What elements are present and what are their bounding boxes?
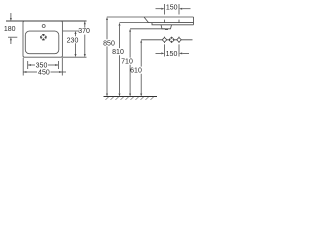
dimension 350 (below plan) bbox=[28, 61, 59, 69]
floor line bbox=[104, 96, 158, 98]
svg-text:370: 370 bbox=[78, 28, 90, 35]
svg-text:230: 230 bbox=[67, 37, 79, 44]
svg-text:610: 610 bbox=[130, 68, 142, 75]
svg-text:150: 150 bbox=[166, 4, 178, 11]
basin back edge (thick top line with side extensions) bbox=[6, 20, 87, 22]
floor hatching bbox=[106, 97, 154, 100]
supply/drain symbols row bbox=[141, 39, 192, 41]
dimension 150 (top, tap holes) bbox=[156, 4, 191, 15]
supply diamond left bbox=[162, 37, 167, 43]
svg-text:180: 180 bbox=[4, 26, 16, 33]
svg-text:710: 710 bbox=[121, 59, 133, 66]
dimension 150 (bottom, supplies) bbox=[156, 44, 190, 56]
trap bbox=[161, 25, 172, 29]
svg-text:810: 810 bbox=[112, 49, 124, 56]
height dimension 810 bbox=[119, 23, 149, 97]
tap hole tick right bbox=[178, 20, 180, 23]
bottom edge right extension bbox=[62, 56, 86, 58]
dimension 230 (right of plan) bbox=[63, 31, 79, 57]
wall-side edge bbox=[193, 17, 195, 25]
front chamfer bbox=[144, 17, 149, 23]
supply diamond right bbox=[177, 37, 182, 43]
rim bottom bbox=[149, 22, 194, 24]
svg-text:350: 350 bbox=[36, 62, 48, 69]
height dimension 710 bbox=[129, 29, 165, 97]
svg-text:450: 450 bbox=[38, 70, 50, 77]
drain circle bbox=[168, 37, 174, 43]
rim top bbox=[144, 16, 194, 18]
tap hole tick left bbox=[164, 20, 166, 23]
dimension 370 (far right of plan) bbox=[84, 21, 86, 57]
dimension 450 (bottom of plan) bbox=[23, 58, 66, 76]
dimension 180 (left side) bbox=[8, 13, 17, 44]
height dimension 610 bbox=[140, 40, 142, 97]
svg-text:850: 850 bbox=[103, 40, 115, 47]
basin outer rim rectangle bbox=[23, 21, 62, 57]
basin side profile bbox=[144, 17, 194, 30]
svg-text:150: 150 bbox=[166, 51, 178, 58]
height dimension 850 bbox=[106, 17, 144, 97]
tap hole bbox=[42, 25, 45, 28]
basin bowl (inner rounded rect) bbox=[25, 31, 59, 54]
underside tier bbox=[152, 23, 194, 25]
drain symbol bbox=[40, 34, 46, 40]
